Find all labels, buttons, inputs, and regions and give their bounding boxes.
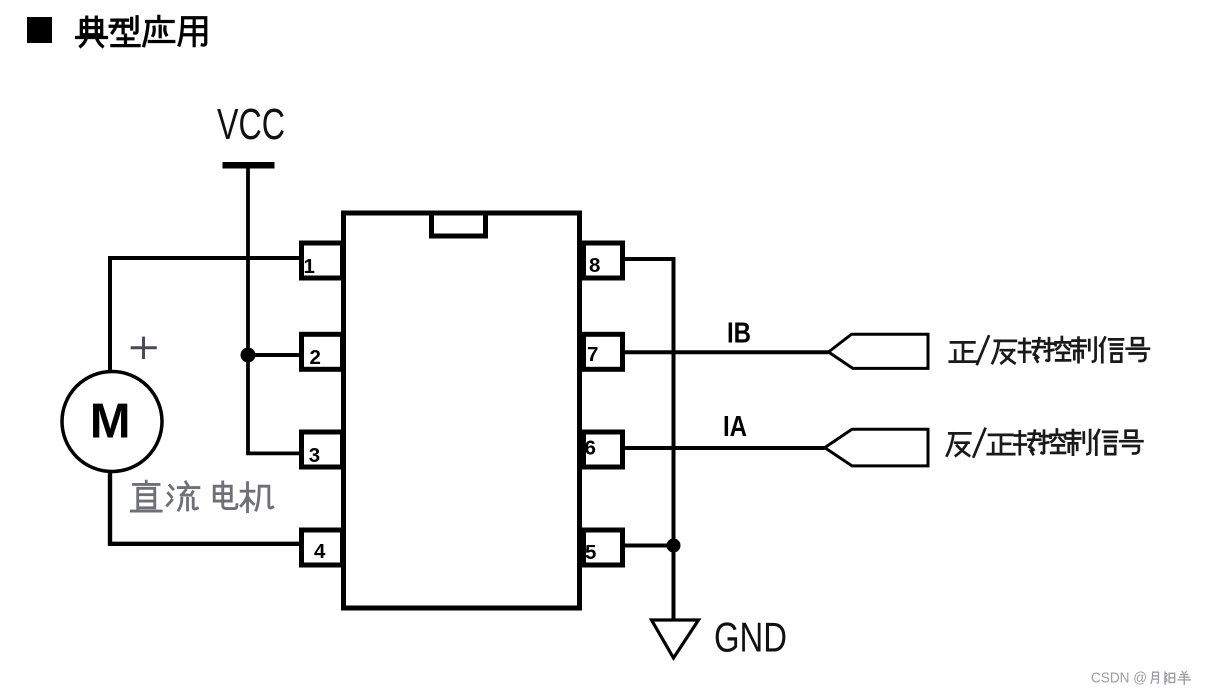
wire pin 8 to ground bus (625, 259, 674, 620)
watermark CSDN @月阳羊 (1091, 670, 1190, 687)
title 典型应用 (77, 16, 206, 46)
wire VCC vertical down to pin 3 (248, 168, 299, 453)
pin 7 (584, 334, 623, 369)
title bullet square (27, 17, 52, 43)
pin 8 (584, 243, 623, 278)
wire pin 7 to IB flag (625, 350, 829, 354)
svg-text:3: 3 (309, 444, 320, 467)
svg-text:IA: IA (723, 411, 747, 443)
wire junction to pin 2 (248, 353, 299, 357)
svg-text:IB: IB (727, 318, 751, 350)
svg-text:GND: GND (714, 614, 787, 661)
flag IB input connector (829, 334, 929, 368)
wire pin 6 to IA flag (625, 446, 825, 450)
label 正/反转控制信号 (950, 336, 1149, 364)
pin 6 (584, 432, 623, 467)
svg-text:5: 5 (585, 541, 596, 564)
pin 1 (302, 243, 343, 278)
IC U1 body (344, 213, 580, 608)
svg-text:M: M (90, 395, 131, 449)
VCC power bar (223, 162, 275, 169)
junction dot pin 5 / ground bus (667, 539, 681, 553)
wire pin 1 to motor top (110, 258, 299, 373)
IC notch (432, 213, 486, 236)
junction dot VCC to pin 2 (241, 348, 256, 363)
wire motor bottom to pin 4 (110, 472, 299, 544)
svg-text:8: 8 (589, 254, 600, 277)
flag IA input connector (825, 429, 928, 466)
svg-text:4: 4 (314, 540, 326, 563)
svg-text:2: 2 (310, 346, 321, 369)
pin 5 (584, 530, 623, 565)
ground symbol triangle (652, 620, 699, 658)
label 反/正转控制信号 (947, 429, 1143, 457)
svg-text:1: 1 (304, 255, 315, 278)
svg-text:7: 7 (587, 343, 598, 366)
wire pin 5 to ground bus (625, 544, 674, 548)
motor M plus polarity mark (131, 337, 157, 359)
svg-text:CSDN @: CSDN @ (1091, 670, 1147, 687)
svg-text:6: 6 (585, 437, 596, 460)
motor M1 circle (62, 372, 162, 472)
pin 4 (302, 530, 343, 565)
pin 3 (302, 432, 343, 467)
svg-text:VCC: VCC (217, 101, 285, 149)
pin 2 (302, 334, 343, 369)
label 直流电机 (131, 481, 272, 512)
